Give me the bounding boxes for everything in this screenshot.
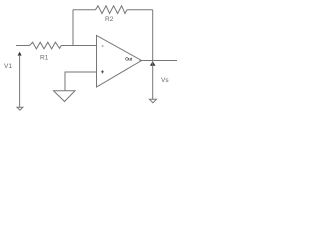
svg-text:R1: R1 bbox=[40, 54, 49, 61]
wire V1 vertical bbox=[19, 55, 21, 107]
wire feedback top right bbox=[127, 9, 153, 11]
wire non-inverting input bbox=[65, 72, 97, 91]
op-amp U1 bbox=[97, 36, 142, 88]
ground under Vs bbox=[150, 99, 157, 103]
wire feedback up bbox=[72, 10, 74, 46]
op-amp inverting input marker bbox=[102, 45, 104, 47]
svg-text:R2: R2 bbox=[105, 16, 114, 23]
ground under V1 bbox=[17, 107, 23, 110]
op-amp non-inverting input marker bbox=[101, 70, 104, 73]
svg-text:V1: V1 bbox=[4, 63, 12, 70]
wire input bbox=[16, 45, 30, 47]
resistor R1 bbox=[30, 42, 62, 49]
resistor R2 bbox=[96, 6, 128, 14]
ground bbox=[54, 91, 76, 102]
wire output bbox=[140, 60, 178, 62]
svg-text:Vs: Vs bbox=[161, 77, 169, 84]
source arrow V1 bbox=[18, 52, 22, 56]
wire feedback top left bbox=[73, 9, 96, 11]
wire feedback down bbox=[152, 10, 154, 61]
node output junction bbox=[150, 61, 156, 66]
wire R1 to op-amp bbox=[61, 45, 96, 47]
svg-text:Out: Out bbox=[125, 57, 133, 62]
wire output to ground bbox=[152, 61, 154, 100]
